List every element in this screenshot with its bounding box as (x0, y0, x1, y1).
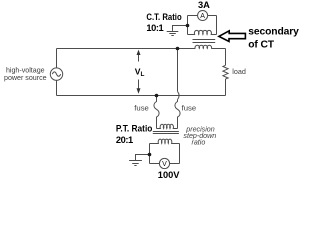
arrowhead VL up (137, 50, 141, 55)
svg-text:secondary: secondary (248, 27, 299, 38)
wire right vertical lower (225, 79, 227, 96)
junction node top wire (176, 47, 180, 51)
wire left vertical lower (56, 80, 58, 95)
wire PT loop right (179, 144, 181, 164)
svg-text:A: A (200, 13, 205, 20)
annotation VL arrow down (138, 80, 140, 92)
svg-text:20:1: 20:1 (116, 135, 133, 145)
wire bottom (57, 95, 226, 97)
inductor PT primary coil (157, 124, 178, 128)
svg-text:V: V (162, 161, 167, 168)
inductor PT secondary coil (150, 139, 180, 143)
wire top-right segment (211, 48, 225, 50)
svg-text:100V: 100V (158, 170, 181, 180)
ground CT (167, 32, 179, 36)
svg-text:3A: 3A (198, 0, 210, 10)
fuse right (175, 100, 180, 129)
wire top-left segment (57, 48, 178, 50)
svg-text:ratio: ratio (191, 138, 205, 146)
junction node bottom wire (155, 94, 159, 98)
wire ammeter loop right (216, 16, 218, 35)
wire CT ground lead (173, 26, 188, 31)
svg-text:fuse: fuse (134, 104, 149, 113)
svg-text:VL: VL (135, 67, 145, 79)
wire PT loop bottom (150, 163, 180, 165)
source AC high-voltage power source (50, 68, 62, 80)
wire ammeter loop left (187, 16, 189, 35)
wire left vertical upper (56, 49, 58, 68)
voltmeter V (159, 158, 169, 168)
svg-text:C.T. Ratio: C.T. Ratio (146, 12, 182, 22)
fuse left (154, 96, 159, 129)
wire ammeter loop top-left (188, 15, 198, 17)
transformer PT core (153, 131, 179, 133)
inductor CT secondary coil (188, 30, 217, 34)
wire top-mid segment (178, 48, 196, 50)
wire right vertical upper (225, 49, 227, 66)
inductor CT primary coil (195, 45, 212, 48)
wire ammeter loop top-right (208, 15, 217, 17)
svg-text:of CT: of CT (248, 40, 275, 51)
svg-text:10:1: 10:1 (146, 23, 163, 33)
wire PT ground lead (136, 155, 150, 161)
block arrow secondary-of-CT (219, 31, 246, 42)
transformer CT core (193, 39, 216, 41)
annotation VL arrow up (138, 52, 140, 62)
svg-text:fuse: fuse (182, 104, 197, 113)
junction node PT ground (148, 153, 152, 157)
svg-text:P.T. Ratio: P.T. Ratio (116, 124, 153, 134)
resistor load (223, 65, 228, 79)
wire CT-line drop with crossover hop (177, 49, 179, 92)
wire PT loop left (149, 144, 151, 164)
svg-text:power source: power source (4, 74, 47, 82)
junction node ammeter loop (186, 24, 190, 28)
ammeter A (198, 10, 208, 20)
ground PT (129, 161, 142, 166)
svg-text:load: load (232, 67, 246, 76)
arrowhead VL down (137, 88, 141, 93)
